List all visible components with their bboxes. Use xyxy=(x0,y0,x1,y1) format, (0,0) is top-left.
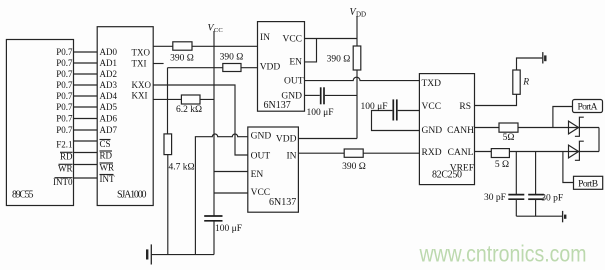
svg-text:6N137: 6N137 xyxy=(264,100,291,111)
svg-text:4.7 kΩ: 4.7 kΩ xyxy=(168,162,194,172)
svg-text:P0.7: P0.7 xyxy=(56,125,73,135)
svg-text:DD: DD xyxy=(356,11,366,19)
svg-text:SJA1000: SJA1000 xyxy=(117,190,147,201)
svg-text:EN: EN xyxy=(251,170,264,180)
svg-text:VCC: VCC xyxy=(422,102,442,112)
svg-text:KXO: KXO xyxy=(132,80,152,90)
svg-text:100 μF: 100 μF xyxy=(215,224,242,234)
svg-text:P0.7: P0.7 xyxy=(56,102,73,112)
svg-text:CC: CC xyxy=(214,27,223,34)
svg-text:P0.7: P0.7 xyxy=(56,80,73,90)
svg-text:30 pF: 30 pF xyxy=(541,193,563,203)
svg-text:www.cntronics.com: www.cntronics.com xyxy=(419,241,587,267)
svg-text:RD: RD xyxy=(100,151,113,161)
svg-text:RS: RS xyxy=(459,102,471,112)
svg-text:INT: INT xyxy=(100,174,115,184)
svg-text:P0.7: P0.7 xyxy=(56,114,73,124)
svg-text:6.2 kΩ: 6.2 kΩ xyxy=(176,105,202,115)
svg-text:P0.7: P0.7 xyxy=(56,58,73,68)
svg-text:P0.7: P0.7 xyxy=(56,47,73,57)
svg-text:AD0: AD0 xyxy=(100,47,118,57)
svg-text:VDD: VDD xyxy=(260,63,281,73)
svg-text:VCC: VCC xyxy=(282,35,302,45)
svg-text:IN: IN xyxy=(260,33,270,43)
svg-text:CANH: CANH xyxy=(447,126,474,136)
svg-text:OUT: OUT xyxy=(284,76,304,86)
svg-text:CANL: CANL xyxy=(448,148,474,158)
svg-text:WR: WR xyxy=(58,164,73,174)
svg-text:INT0: INT0 xyxy=(53,177,73,187)
svg-text:OUT: OUT xyxy=(251,151,271,161)
svg-text:100 μF: 100 μF xyxy=(306,108,333,118)
svg-text:100 μF: 100 μF xyxy=(360,102,387,112)
svg-text:VCC: VCC xyxy=(251,188,271,198)
svg-text:5Ω: 5Ω xyxy=(503,133,515,143)
svg-text:WR: WR xyxy=(100,163,115,173)
svg-text:RXD: RXD xyxy=(422,148,442,158)
svg-text:VDD: VDD xyxy=(276,134,297,144)
svg-text:TXD: TXD xyxy=(422,79,442,89)
svg-text:AD1: AD1 xyxy=(100,58,118,68)
svg-text:AD4: AD4 xyxy=(100,91,118,101)
svg-text:TXO: TXO xyxy=(132,48,151,58)
svg-text:KXI: KXI xyxy=(132,91,148,101)
svg-text:390 Ω: 390 Ω xyxy=(342,162,366,172)
svg-text:AD6: AD6 xyxy=(100,114,118,124)
svg-text:PortA: PortA xyxy=(578,103,598,113)
svg-text:CS: CS xyxy=(100,139,111,149)
svg-text:TXI: TXI xyxy=(132,59,147,69)
svg-text:IN: IN xyxy=(286,152,296,162)
svg-text:6N137: 6N137 xyxy=(269,197,296,208)
svg-text:AD3: AD3 xyxy=(100,80,118,90)
svg-text:390 Ω: 390 Ω xyxy=(170,54,194,64)
svg-text:P0.7: P0.7 xyxy=(56,91,73,101)
svg-text:R: R xyxy=(522,77,529,87)
svg-text:EN: EN xyxy=(289,58,302,68)
svg-text:30 pF: 30 pF xyxy=(484,193,506,203)
svg-text:AD2: AD2 xyxy=(100,69,118,79)
svg-text:82C250: 82C250 xyxy=(432,169,462,180)
svg-text:P0.7: P0.7 xyxy=(56,69,73,79)
svg-text:GND: GND xyxy=(422,126,443,136)
svg-text:RD: RD xyxy=(60,152,73,162)
svg-text:AD7: AD7 xyxy=(100,125,118,135)
svg-text:5 Ω: 5 Ω xyxy=(495,160,509,170)
svg-text:390 Ω: 390 Ω xyxy=(327,55,351,65)
svg-text:89C55: 89C55 xyxy=(12,190,34,201)
svg-text:PortB: PortB xyxy=(578,179,598,189)
svg-text:390 Ω: 390 Ω xyxy=(220,53,244,63)
svg-text:AD5: AD5 xyxy=(100,102,118,112)
svg-text:GND: GND xyxy=(251,131,272,141)
svg-text:F2.1: F2.1 xyxy=(56,140,72,150)
